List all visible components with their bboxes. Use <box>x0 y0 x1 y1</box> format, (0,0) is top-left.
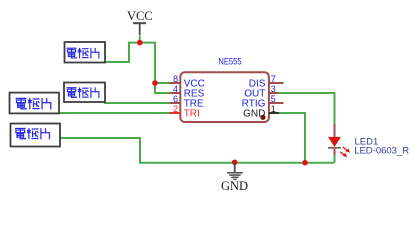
LED cathode lead <box>334 149 336 155</box>
wire: box P3 to pin 2 <box>58 112 170 114</box>
wire: pin 3 to LED anode <box>277 93 335 125</box>
svg-text:VCC: VCC <box>127 9 153 23</box>
part origin dot <box>260 115 265 120</box>
svg-text:NE555: NE555 <box>218 57 241 68</box>
wire: pin 1 to ground rail <box>278 113 305 163</box>
wire: LED cathode to ground rail <box>334 155 336 163</box>
junction: ground rail at GND symbol <box>232 160 238 166</box>
junction: VCC node <box>137 40 143 46</box>
svg-text:1: 1 <box>271 104 276 114</box>
LED cathode bar <box>328 147 341 149</box>
svg-text:LED-0603_R: LED-0603_R <box>354 145 409 156</box>
svg-text:2: 2 <box>173 104 178 114</box>
wire: box P4 to ground rail <box>59 138 140 163</box>
svg-text:7: 7 <box>271 74 276 84</box>
junction: ground rail at pin1 branch <box>302 160 308 166</box>
VCC power symbol <box>127 9 153 35</box>
svg-text:3: 3 <box>271 84 276 94</box>
pin 7 DIS <box>249 74 284 90</box>
junction: pin8/pin4 branch <box>152 80 158 86</box>
svg-text:5: 5 <box>271 94 276 104</box>
op-amp U1 NE555 body <box>180 72 269 122</box>
LED D1 <box>328 125 350 158</box>
wire: box P2 to pin 6 <box>104 102 170 104</box>
pin 1 GND <box>243 104 279 120</box>
svg-text:GND: GND <box>221 179 248 193</box>
port box P3 電極片 <box>10 93 60 114</box>
GND ground symbol <box>221 163 248 193</box>
LED triangle <box>328 137 341 147</box>
port box P2 電極片 <box>64 83 105 103</box>
pin 6 TRE <box>170 94 205 110</box>
pin 4 RES <box>170 84 205 100</box>
LED emission arrow 1 <box>343 147 350 153</box>
LED anode lead <box>334 125 336 138</box>
wire: ground rail <box>139 162 335 164</box>
svg-text:GND: GND <box>243 109 265 120</box>
pin 8 VCC <box>170 74 205 90</box>
pin 3 OUT <box>244 84 278 100</box>
svg-text:8: 8 <box>173 74 178 84</box>
pin 2 TRI highlighted <box>170 104 200 120</box>
wire: box P1 to VCC junction <box>105 43 140 62</box>
svg-text:6: 6 <box>173 94 178 104</box>
pin 5 RTIG <box>242 94 284 110</box>
port box P4 電極片 <box>11 124 61 147</box>
svg-text:4: 4 <box>173 84 178 94</box>
LED emission arrow 2 <box>340 152 347 158</box>
svg-text:TRI: TRI <box>184 109 200 120</box>
wire: VCC junction to pin 8 and pin 4 <box>140 36 170 94</box>
port box P1 電極片 <box>65 42 106 63</box>
